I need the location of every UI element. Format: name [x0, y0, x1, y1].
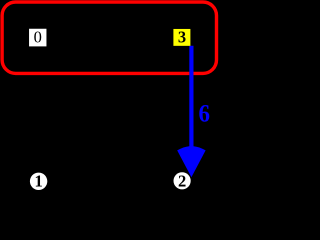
node 0 (white square): [29, 29, 46, 47]
red rounded group box: [2, 2, 216, 73]
svg-text:6: 6: [198, 101, 210, 128]
svg-text:1: 1: [34, 172, 42, 191]
svg-text:2: 2: [178, 171, 186, 190]
node 1 (white circle): [30, 173, 47, 190]
node 3 (yellow square): [173, 29, 190, 46]
node 2 (white circle): [174, 172, 191, 189]
svg-text:3: 3: [178, 28, 186, 47]
svg-text:0: 0: [34, 28, 42, 47]
arrowhead of edge 3 to 2: [177, 146, 205, 177]
wire edge 3 to 2 (blue shaft): [189, 46, 193, 148]
